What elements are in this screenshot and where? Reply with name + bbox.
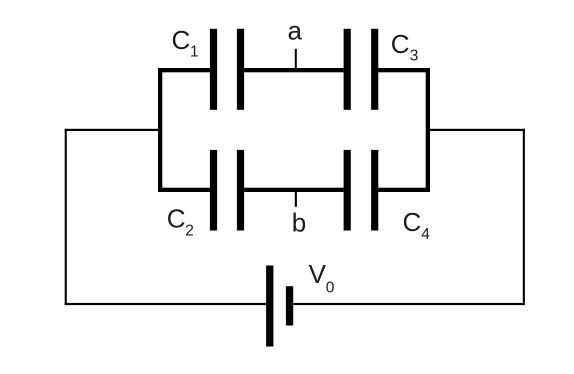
wire top-branch left segment: [158, 68, 211, 72]
wire outer-loop left horizontal: [65, 129, 160, 131]
svg-text:C: C: [167, 204, 186, 234]
svg-text:C: C: [172, 25, 191, 55]
capacitor C1: [210, 29, 244, 110]
wire left bridge vertical: [158, 68, 162, 192]
svg-text:C: C: [403, 207, 422, 237]
wire outer-loop left vertical: [65, 129, 67, 305]
svg-text:a: a: [288, 16, 303, 46]
svg-text:b: b: [292, 208, 306, 238]
wire outer-loop right vertical: [523, 129, 525, 305]
svg-text:2: 2: [185, 223, 194, 240]
capacitor C2: [210, 150, 244, 231]
node b tick: [295, 190, 297, 207]
svg-text:0: 0: [326, 280, 335, 297]
svg-text:C: C: [391, 29, 410, 59]
svg-text:V: V: [309, 259, 327, 289]
capacitor C3: [344, 29, 379, 110]
wire right bridge vertical: [426, 68, 430, 192]
wire top-branch middle segment (node a): [244, 68, 344, 72]
svg-text:3: 3: [410, 47, 419, 64]
node a tick: [295, 49, 297, 70]
wire outer-loop bottom right segment: [293, 303, 525, 305]
wire bottom-branch right segment: [378, 188, 430, 192]
capacitor C4: [344, 150, 379, 231]
wire top-branch right segment: [378, 68, 430, 72]
battery V0: [266, 266, 293, 347]
wire outer-loop right horizontal: [428, 129, 525, 131]
svg-text:1: 1: [190, 44, 199, 61]
wire bottom-branch left segment: [158, 188, 211, 192]
wire outer-loop bottom left segment: [65, 303, 266, 305]
wire bottom-branch middle segment (node b): [244, 188, 344, 192]
svg-text:4: 4: [421, 226, 430, 243]
